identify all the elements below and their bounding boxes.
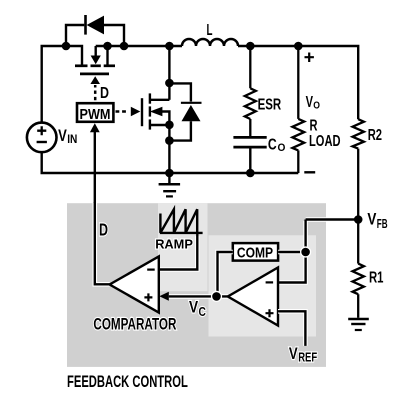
PWM block bbox=[77, 103, 113, 123]
node: diode loop left bbox=[62, 42, 71, 51]
wire diode loop left bbox=[66, 25, 84, 46]
wire VIN top to PMOS source bbox=[42, 46, 82, 123]
node: ESR top bbox=[246, 42, 255, 51]
node: ESR bottom bbox=[246, 169, 255, 178]
svg-text:LOAD: LOAD bbox=[309, 133, 341, 150]
arrow into PWM bottom (duty cycle input) bbox=[90, 123, 100, 132]
svg-text:RAMP: RAMP bbox=[155, 236, 193, 251]
svg-text:COMPARATOR: COMPARATOR bbox=[93, 316, 176, 334]
node: NMOS source bbox=[165, 121, 174, 130]
resistor R LOAD bbox=[292, 46, 304, 173]
capacitor CO bbox=[233, 137, 266, 173]
op-amp comparator bbox=[110, 256, 159, 312]
svg-text:C: C bbox=[268, 137, 277, 154]
node: diode loop right bbox=[120, 42, 129, 51]
wire diode loop right bbox=[104, 25, 124, 46]
svg-text:V: V bbox=[189, 299, 198, 317]
node: PMOS drain bbox=[103, 42, 112, 51]
svg-text:O: O bbox=[278, 142, 286, 154]
wire ramp to comparator minus input bbox=[160, 236, 197, 270]
wire error amp plus input to VREF bbox=[278, 311, 305, 346]
svg-text:R2: R2 bbox=[368, 127, 382, 144]
svg-text:FB: FB bbox=[377, 217, 388, 231]
node: switch node top bbox=[165, 42, 174, 51]
diode D1 top (across PMOS) bbox=[86, 15, 105, 35]
svg-text:IN: IN bbox=[67, 132, 77, 146]
svg-text:R: R bbox=[310, 118, 318, 135]
diode D2 (catch diode across Q2) bbox=[169, 83, 201, 140]
node: NMOS drain / diode branch bbox=[165, 79, 174, 88]
svg-text:O: O bbox=[313, 99, 320, 111]
svg-text:D: D bbox=[100, 85, 109, 102]
wire COMP right to VFB drop bbox=[278, 250, 306, 255]
svg-text:V: V bbox=[367, 211, 376, 229]
label - (output negative) bbox=[304, 171, 315, 173]
wire VFB drop to error amp minus input bbox=[278, 221, 306, 283]
inner light panel (COMP + error amp) bbox=[209, 235, 317, 336]
node: diode return bbox=[165, 136, 174, 145]
node: VC bbox=[211, 291, 222, 302]
resistor R1 bbox=[353, 220, 364, 318]
wire top rail inductor to R2 corner bbox=[238, 46, 358, 119]
inductor L bbox=[182, 39, 238, 46]
ground (R1) bbox=[348, 319, 369, 330]
wire VC to comparator plus input with arrow bbox=[159, 292, 228, 301]
wire VFB node horizontal bbox=[306, 217, 356, 222]
svg-text:V: V bbox=[289, 345, 298, 363]
label + (output positive) bbox=[305, 53, 314, 63]
transistor Q2 NMOS (sync switch) bbox=[142, 93, 169, 129]
svg-text:FEEDBACK CONTROL: FEEDBACK CONTROL bbox=[67, 372, 188, 391]
svg-text:L: L bbox=[207, 22, 213, 39]
voltage source VIN bbox=[27, 123, 57, 153]
node: ground rail bbox=[165, 169, 174, 178]
svg-text:R1: R1 bbox=[369, 270, 384, 287]
svg-text:D: D bbox=[99, 220, 108, 240]
node: COMP right bbox=[300, 246, 311, 257]
COMP block bbox=[233, 243, 278, 261]
svg-text:REF: REF bbox=[298, 350, 317, 365]
svg-text:PWM: PWM bbox=[80, 106, 111, 123]
svg-text:C: C bbox=[199, 305, 206, 319]
ramp light panel bbox=[158, 203, 208, 291]
node: VFB bbox=[354, 215, 363, 224]
wire comparator output up to PWM bbox=[94, 131, 96, 203]
feedback control outer gray box bbox=[67, 203, 326, 367]
ground (power stage) bbox=[159, 173, 181, 196]
dashed gate drive arrow to Q2 from PWM bbox=[116, 107, 141, 117]
svg-text:COMP: COMP bbox=[237, 245, 273, 262]
ramp sawtooth waveform bbox=[160, 209, 203, 233]
svg-text:V: V bbox=[306, 94, 314, 111]
wire NMOS branch vertical bbox=[168, 46, 170, 100]
node: VO plus bbox=[294, 42, 303, 51]
resistor R2 bbox=[353, 119, 364, 219]
dashed gate drive arrow to Q1 from PWM bbox=[90, 76, 100, 100]
wire top rail PMOS drain to inductor bbox=[96, 45, 182, 47]
svg-text:V: V bbox=[58, 127, 67, 145]
wire COMP left to VC node bbox=[218, 252, 233, 296]
wire PMOS drain lead bbox=[106, 46, 108, 65]
op-amp error amplifier bbox=[228, 268, 278, 326]
wire VIN bottom rail bbox=[42, 152, 299, 173]
wire NMOS source to ground bbox=[168, 125, 170, 173]
svg-text:ESR: ESR bbox=[258, 97, 282, 114]
resistor ESR bbox=[245, 46, 256, 136]
transistor Q1 PMOS (top switch) bbox=[75, 46, 115, 74]
